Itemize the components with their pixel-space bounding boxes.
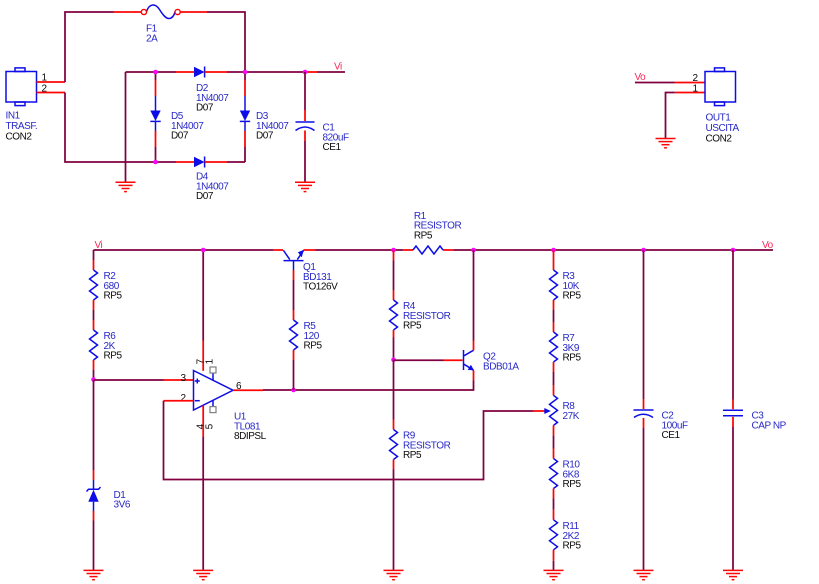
- resistor R4: [390, 250, 451, 360]
- svg-text:27K: 27K: [563, 411, 580, 422]
- svg-text:CON2: CON2: [706, 134, 733, 145]
- wire R8 to R10: [553, 435, 555, 448]
- svg-text:RP5: RP5: [414, 230, 433, 241]
- svg-text:1: 1: [693, 84, 699, 95]
- wire fuse to bridge top node: [180, 12, 245, 71]
- svg-text:2: 2: [42, 83, 48, 94]
- resistor R9: [390, 420, 451, 571]
- wire R2 to R6: [93, 310, 95, 320]
- wire R1 to Vo rail: [453, 249, 773, 251]
- svg-text:CE1: CE1: [662, 430, 681, 441]
- svg-text:2A: 2A: [146, 34, 158, 45]
- svg-text:RP5: RP5: [104, 351, 123, 362]
- R8 wiper arrow: [544, 408, 551, 414]
- wire bridge top row left: [126, 71, 177, 73]
- svg-text:3: 3: [181, 373, 187, 384]
- U1 pin 5 (no-connect): [204, 400, 216, 429]
- ground (U1 pin4): [193, 570, 213, 579]
- resistor R3: [550, 250, 582, 310]
- resistor R7: [550, 322, 582, 372]
- svg-text:Vi: Vi: [334, 62, 342, 73]
- connector OUT1: [705, 68, 740, 145]
- svg-text:CAP NP: CAP NP: [752, 421, 787, 432]
- svg-text:OUT1: OUT1: [706, 113, 732, 124]
- diode D2: [176, 67, 229, 114]
- ground (C2): [634, 570, 654, 579]
- ground (D1): [84, 570, 104, 579]
- svg-text:CON2: CON2: [6, 132, 33, 143]
- junction rail / R4: [391, 248, 396, 253]
- svg-text:2: 2: [181, 393, 187, 404]
- svg-text:BDB01A: BDB01A: [483, 361, 519, 372]
- U1 pin 6 output stub: [233, 389, 263, 391]
- ground (R9): [384, 570, 404, 579]
- junction bridge top-center: [243, 70, 248, 75]
- svg-text:3V6: 3V6: [114, 500, 131, 511]
- ground (C3): [723, 570, 743, 579]
- resistor R5: [290, 310, 323, 390]
- junction R6 / pin3 node: [91, 377, 96, 382]
- fuse F1: [141, 5, 180, 45]
- capacitor C3: [723, 250, 787, 570]
- connector IN1: [6, 68, 38, 143]
- svg-text:RP5: RP5: [304, 341, 323, 352]
- svg-text:D07: D07: [196, 103, 214, 114]
- wire R10 to R11: [553, 499, 555, 510]
- junction bridge top-left: [153, 70, 158, 75]
- U1 pin 1 (no-connect): [204, 358, 216, 380]
- zener diode D1: [87, 470, 131, 570]
- junction R4 / Q2 base: [391, 357, 396, 362]
- wire IN1 pin1 up to fuse: [65, 12, 141, 82]
- svg-text:D07: D07: [196, 191, 214, 202]
- ground (C1): [295, 182, 315, 191]
- diode D3: [240, 72, 289, 162]
- svg-text:RP5: RP5: [403, 321, 422, 332]
- svg-text:1: 1: [42, 73, 48, 84]
- junction rail / R3: [551, 248, 556, 253]
- junction rail / U1 pin7: [201, 248, 206, 253]
- ground (R11): [544, 570, 564, 579]
- svg-text:Vo: Vo: [762, 240, 774, 251]
- capacitor C1: [296, 72, 349, 182]
- svg-text:D07: D07: [256, 131, 274, 142]
- svg-text:RP5: RP5: [563, 479, 582, 490]
- wire Q1 emitter rail: [304, 249, 404, 251]
- ground (OUT1): [656, 139, 676, 148]
- wire node to op-amp pin 3: [94, 379, 194, 381]
- svg-text:D07: D07: [171, 131, 189, 142]
- wire output to Q2 emitter: [263, 381, 474, 391]
- resistor R6: [90, 320, 123, 380]
- wire bridge top row right: [227, 71, 345, 73]
- ground (bridge left): [116, 182, 136, 191]
- wire bridge bottom row right: [227, 161, 245, 163]
- wire OUT1 pin1 to ground: [666, 93, 706, 139]
- resistor R11: [550, 510, 582, 571]
- potentiometer R8: [550, 385, 580, 435]
- IN1 pin 1: [37, 73, 66, 84]
- diode D4: [176, 157, 229, 203]
- transistor Q2: [464, 350, 520, 372]
- Q2 emitter stub: [473, 370, 475, 380]
- IN1 pin 2: [37, 83, 66, 94]
- op-amp U1: [194, 371, 267, 443]
- wire R3 to R7: [553, 310, 555, 322]
- wire IN1 pin2 down to bridge bottom row: [65, 93, 176, 163]
- wire Q1 base to R5: [293, 280, 295, 310]
- wire Vi rail left: [94, 249, 284, 251]
- U1 pin 4 (V-) to ground: [195, 405, 206, 570]
- svg-text:IN1: IN1: [6, 111, 21, 122]
- resistor R10: [550, 449, 582, 499]
- resistor R1: [403, 211, 461, 254]
- wire R4 node to Q2 base: [394, 359, 463, 361]
- svg-text:4: 4: [195, 423, 206, 429]
- wire Vo to OUT1 pin2: [635, 82, 705, 84]
- capacitor C2: [634, 250, 688, 570]
- junction rail / Q2 collector: [471, 248, 476, 253]
- svg-text:1: 1: [204, 358, 215, 364]
- svg-text:8DIPSL: 8DIPSL: [234, 431, 267, 442]
- diode D5: [150, 72, 204, 162]
- svg-text:RP5: RP5: [563, 291, 582, 302]
- junction output / R5: [291, 388, 296, 393]
- junction C1 top: [303, 70, 308, 75]
- svg-text:CE1: CE1: [323, 142, 342, 153]
- svg-text:TRASF.: TRASF.: [6, 121, 38, 132]
- wire R7 to R8: [553, 372, 555, 385]
- wire node down to D1: [93, 380, 95, 470]
- wire U1 pin2 feedback to R8 wiper: [164, 401, 546, 480]
- wire Q2 collector to rail: [473, 250, 475, 350]
- transistor Q1: [283, 250, 338, 293]
- U1 pin 7 (V+): [195, 250, 206, 371]
- svg-text:2: 2: [693, 73, 699, 84]
- junction bridge bottom: [153, 160, 158, 165]
- svg-text:TO126V: TO126V: [303, 282, 338, 293]
- junction rail / C2: [641, 248, 646, 253]
- resistor R2: [90, 250, 123, 310]
- wire R4 node down to R9: [393, 360, 395, 420]
- svg-text:Vo: Vo: [635, 72, 647, 83]
- svg-text:RP5: RP5: [104, 291, 123, 302]
- svg-text:RP5: RP5: [403, 450, 422, 461]
- wire bridge left branch to ground: [125, 72, 127, 182]
- svg-text:RP5: RP5: [563, 541, 582, 552]
- junction rail / C3: [731, 248, 736, 253]
- svg-text:USCITA: USCITA: [706, 123, 740, 134]
- svg-text:RP5: RP5: [563, 353, 582, 364]
